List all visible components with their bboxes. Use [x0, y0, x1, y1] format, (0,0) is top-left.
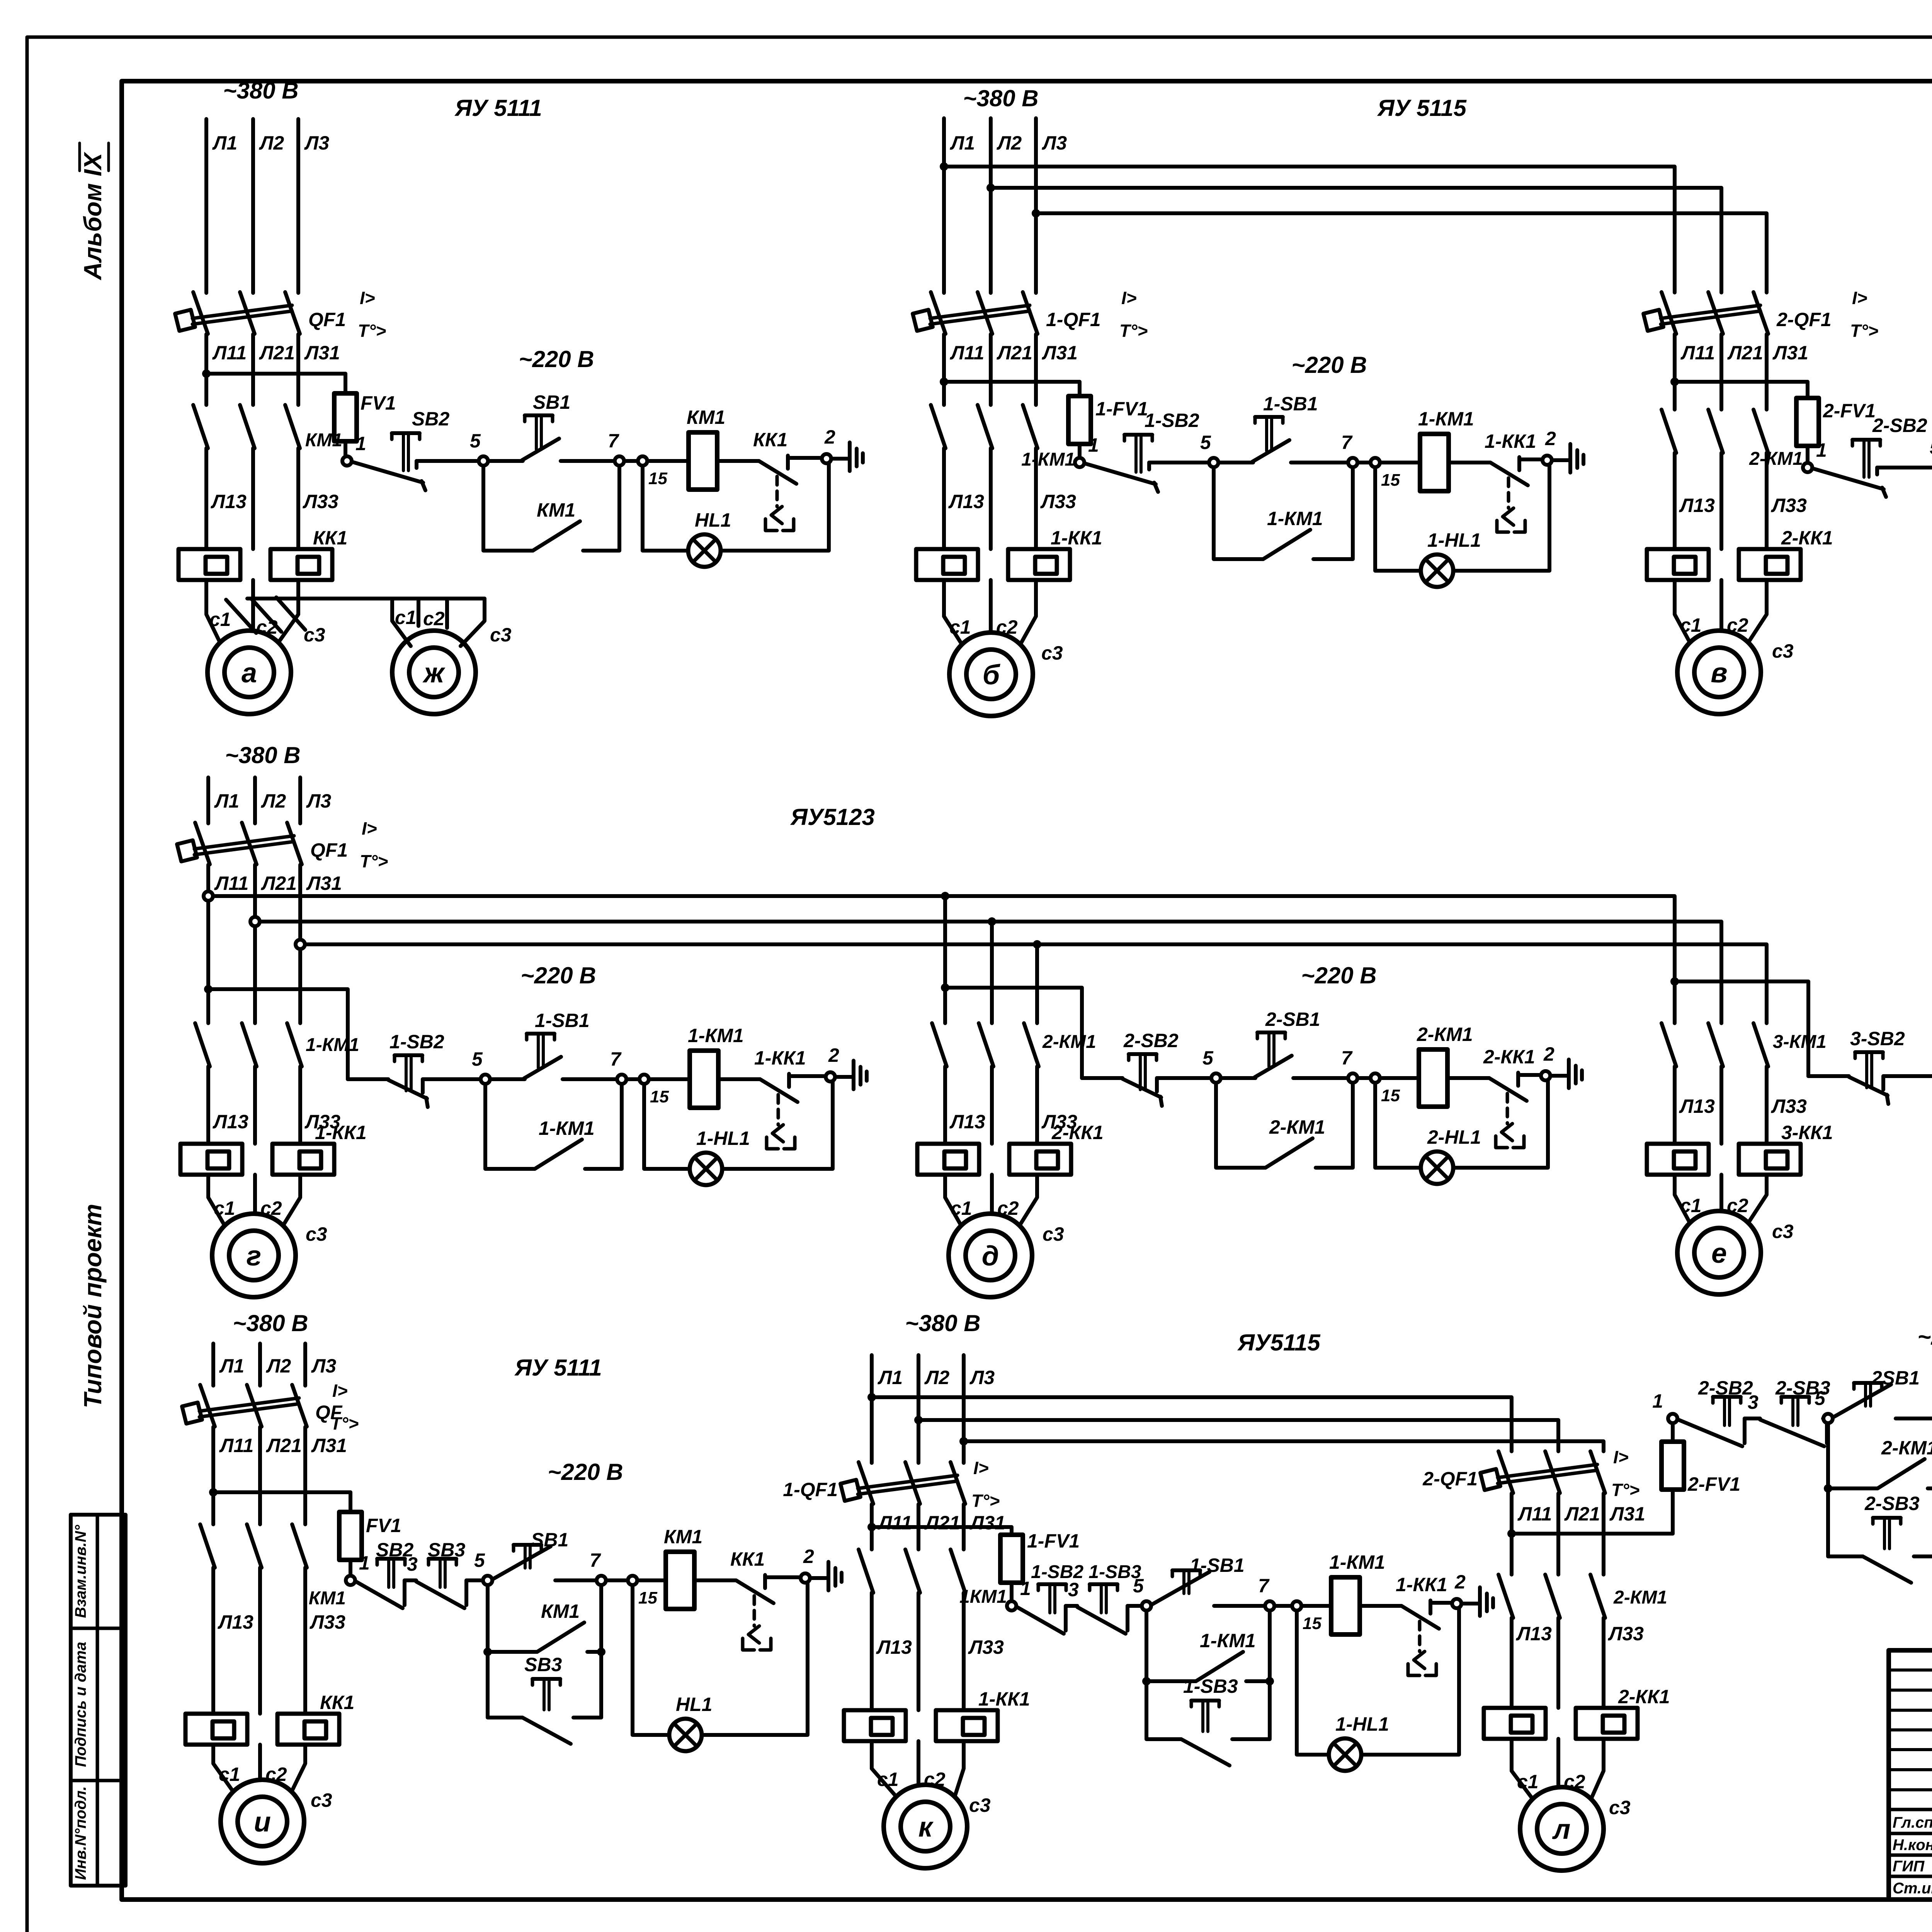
thermal relay heater 2-КК1 phase 3 (unit д) [1009, 1144, 1071, 1175]
svg-text:и: и [254, 1807, 271, 1838]
svg-text:c3: c3 [304, 624, 325, 646]
svg-text:SB1: SB1 [533, 391, 570, 413]
contactor main contacts 2-КМ1 (unit д) [932, 1023, 947, 1066]
lamp branch wire (unit и) [633, 1585, 669, 1735]
svg-text:c3: c3 [1609, 1797, 1631, 1818]
svg-text:2-КМ1: 2-КМ1 [1881, 1437, 1932, 1459]
svg-text:Л21: Л21 [924, 1512, 960, 1534]
control tap junction (unit д) [941, 983, 949, 992]
svg-text:2-КК1: 2-КК1 [1051, 1122, 1104, 1143]
svg-text:в: в [1711, 658, 1728, 689]
title block signature grid [1889, 1808, 1932, 1811]
thermal relay heater КК1 phase 3 (unit a) [270, 549, 332, 580]
svg-text:1: 1 [359, 1552, 370, 1574]
wire motor leads c1 c2 c3 (unit б) [944, 580, 962, 644]
svg-text:1-КМ1: 1-КМ1 [1267, 508, 1323, 529]
svg-text:I>: I> [1852, 288, 1867, 308]
svg-text:1: 1 [1088, 434, 1099, 456]
svg-text:~220 В: ~220 В [1291, 352, 1367, 378]
svg-text:SB3: SB3 [428, 1539, 465, 1561]
signal lamp 1-HL1 (unit г) [690, 1153, 722, 1185]
node 1 (unit в) [1803, 463, 1812, 472]
contactor main contacts 3-КМ1 (unit е) [1662, 1023, 1676, 1066]
wire to node 2 (unit к) [1430, 1601, 1452, 1605]
svg-text:3: 3 [1068, 1579, 1079, 1600]
motor в (unit в) [1677, 631, 1761, 714]
node 7 (unit д) [1348, 1073, 1357, 1083]
node 2 (unit д) [1541, 1071, 1550, 1080]
stop button 2-SB2 NC contact (unit л) [1678, 1420, 1742, 1446]
svg-text:КМ1: КМ1 [309, 1588, 346, 1609]
svg-text:I>: I> [362, 818, 377, 838]
wire phase L1 feeder (unit к) [870, 1355, 874, 1463]
lamp branch wire (unit к) [1297, 1611, 1329, 1755]
contactor main contacts 2-КМ1 (unit л) [1498, 1575, 1513, 1618]
thermal relay heater 2-КК1 phase 1 (unit в) [1647, 549, 1709, 580]
node 5 (unit л) [1823, 1414, 1833, 1423]
thermal relay heater КК1 phase 1 (unit и) [185, 1714, 247, 1745]
node 5 (unit и) [483, 1576, 492, 1585]
svg-text:T°>: T°> [1850, 321, 1878, 341]
wire contactor to heaters (unit д) [943, 1066, 947, 1144]
svg-text:Л33: Л33 [968, 1636, 1004, 1658]
thermal relay heater 3-КК1 phase 1 (unit е) [1647, 1144, 1709, 1175]
svg-text:Л3: Л3 [311, 1355, 336, 1377]
svg-text:КМ1: КМ1 [537, 499, 575, 521]
wire motor leads c1 c2 c3 (unit е) [1675, 1175, 1690, 1223]
svg-text:Типовой проект: Типовой проект [79, 1204, 107, 1408]
svg-text:г: г [247, 1241, 261, 1272]
svg-text:Л1: Л1 [214, 790, 239, 812]
svg-text:Л13: Л13 [1679, 495, 1715, 516]
svg-text:Л13: Л13 [949, 1111, 985, 1133]
svg-text:1-КК1: 1-КК1 [1396, 1574, 1447, 1595]
svg-text:Л3: Л3 [304, 132, 329, 154]
wire to node 2 (unit б) [1519, 457, 1543, 461]
wire contactor to heaters (unit б) [942, 448, 946, 549]
wire node 2 to ground (unit и) [810, 1576, 828, 1580]
left stamp column boxes [71, 1515, 126, 1886]
motor и (unit и) [221, 1780, 304, 1863]
svg-text:7: 7 [1341, 1047, 1353, 1069]
pushbutton actuator (unit л) [1873, 1516, 1901, 1520]
node 15 (unit д) [1371, 1073, 1380, 1083]
chassis ground (unit к) [1478, 1587, 1482, 1616]
svg-text:Л21: Л21 [1727, 342, 1763, 364]
branch nodes on auxiliary loop (unit и) [483, 1648, 492, 1656]
svg-text:~380 В: ~380 В [905, 1310, 980, 1336]
svg-text:2-SB1: 2-SB1 [1265, 1009, 1320, 1030]
svg-text:2: 2 [1543, 1043, 1554, 1065]
svg-text:T°>: T°> [358, 321, 386, 341]
wire node 2 to ground (unit д) [1550, 1074, 1568, 1078]
thermal relay heater 2-КК1 phase 3 (unit в) [1739, 549, 1801, 580]
svg-text:Л1: Л1 [950, 132, 975, 154]
svg-text:Взам.инв.N°: Взам.инв.N° [72, 1525, 89, 1618]
wire SB1 to node 7 (unit л) [1896, 1417, 1932, 1420]
svg-text:Л11: Л11 [950, 342, 984, 364]
svg-text:Л13: Л13 [876, 1636, 912, 1658]
pushbutton actuator (unit в) [1852, 438, 1880, 442]
thermal relay NC contact 2-КК1 (unit д) [1489, 1078, 1527, 1101]
thermal release symbol (unit д) [1506, 1094, 1509, 1124]
node 1 (unit л) [1668, 1414, 1677, 1423]
terminal box (motor ж) [392, 599, 411, 646]
wire breaker to contactor (unit в) [1673, 334, 1677, 410]
motor г (unit г) [212, 1214, 296, 1297]
branch nodes on auxiliary loop (unit л) [1824, 1484, 1832, 1493]
parallel start button SB3 branch (unit и) [488, 1652, 522, 1718]
svg-text:1-КМ1: 1-КМ1 [1329, 1551, 1385, 1573]
thermal relay NC contact 1-КК1 (unit к) [1401, 1606, 1439, 1629]
svg-text:КК1: КК1 [753, 429, 787, 451]
fuse FV1 (unit и) [349, 1492, 352, 1512]
node 15 (unit a) [638, 456, 647, 466]
fuse 2-FV1 (unit л) [1662, 1442, 1684, 1490]
svg-text:5: 5 [1133, 1575, 1144, 1597]
svg-text:15: 15 [1381, 471, 1400, 490]
svg-text:c3: c3 [1041, 642, 1063, 664]
auxiliary contact КМ1 branch (unit a) [483, 466, 533, 551]
svg-text:КМ1: КМ1 [541, 1600, 580, 1622]
lamp branch wire (unit г) [644, 1084, 690, 1169]
svg-text:I>: I> [332, 1381, 348, 1401]
svg-text:~380 В: ~380 В [225, 742, 300, 768]
svg-text:c3: c3 [306, 1223, 327, 1245]
svg-text:2: 2 [824, 426, 835, 448]
chassis ground (unit г) [852, 1061, 855, 1089]
wire to node 2 (unit г) [789, 1074, 826, 1078]
svg-text:2-КК1: 2-КК1 [1781, 527, 1833, 549]
svg-text:1: 1 [1816, 439, 1827, 461]
stop button SB2 NC contact (unit и) [356, 1582, 403, 1608]
svg-text:2-FV1: 2-FV1 [1687, 1473, 1740, 1495]
node 1 (unit к) [1007, 1601, 1016, 1611]
svg-text:ЯУ5123: ЯУ5123 [790, 804, 875, 830]
wire SB2 to node 5 (unit a) [415, 461, 418, 468]
svg-text:c3: c3 [490, 624, 512, 646]
wire contactor to heaters (unit в) [1673, 453, 1677, 549]
lamp branch wire (unit б) [1375, 468, 1421, 571]
thermal relay heater 2-КК1 phase 3 (unit л) [1576, 1708, 1638, 1739]
wire phase L2 feeder (unit б) [989, 118, 993, 293]
thermal relay heater КК1 phase 1 (unit a) [179, 549, 240, 580]
svg-text:Л2: Л2 [924, 1367, 949, 1388]
svg-text:Л31: Л31 [306, 872, 342, 894]
svg-text:ЯУ5115: ЯУ5115 [1237, 1330, 1321, 1355]
svg-text:Л11: Л11 [219, 1435, 253, 1456]
svg-text:1-SB1: 1-SB1 [1190, 1554, 1245, 1576]
svg-text:2: 2 [803, 1546, 814, 1567]
svg-text:2: 2 [1545, 428, 1556, 449]
wire to node 2 (unit a) [788, 456, 822, 460]
pushbutton actuator (unit л) [1713, 1395, 1741, 1399]
svg-text:2-SB3: 2-SB3 [1864, 1493, 1920, 1514]
fuse 1-FV1 (unit б) [1078, 382, 1082, 396]
thermal release symbol (unit к) [1418, 1621, 1422, 1651]
svg-text:КК1: КК1 [730, 1548, 765, 1570]
svg-text:1-КМ1: 1-КМ1 [539, 1117, 595, 1139]
signal lamp 2-HL1 (unit д) [1421, 1151, 1453, 1184]
contactor coil КМ1 (unit и) [666, 1552, 694, 1609]
motor л (unit л) [1520, 1787, 1604, 1871]
svg-text:3: 3 [407, 1553, 418, 1575]
pushbutton actuator (unit к) [1172, 1568, 1200, 1572]
svg-text:1: 1 [355, 433, 366, 454]
svg-text:Л1: Л1 [219, 1355, 244, 1377]
bus wire phase 1 row 2 [213, 896, 1675, 1022]
control tap junction (unit в) [1670, 378, 1679, 386]
svg-text:1-КМ1: 1-КМ1 [1200, 1630, 1256, 1651]
wire node 2 to ground (unit к) [1461, 1602, 1479, 1605]
svg-text:1: 1 [1020, 1578, 1031, 1599]
wire SB1 to node 7 (unit a) [561, 459, 614, 463]
pushbutton actuator (unit б) [1124, 433, 1152, 437]
svg-text:Инв.N°подл.: Инв.N°подл. [72, 1786, 89, 1880]
start button 2SB1 NO contact (unit л) [1833, 1384, 1891, 1417]
svg-text:КМ1: КМ1 [305, 430, 342, 451]
control tap junction (unit a) [202, 369, 211, 378]
node 5 (unit a) [479, 456, 488, 466]
svg-text:15: 15 [1303, 1614, 1321, 1633]
control tap junction (unit л) [1507, 1529, 1516, 1538]
svg-text:I>: I> [973, 1458, 989, 1478]
wire phase L1 feeder (unit г) [206, 777, 210, 823]
node 7 (unit б) [1348, 458, 1357, 467]
svg-text:Н.контр.: Н.контр. [1893, 1837, 1932, 1854]
start button 2-SB1 NO contact (unit д) [1221, 1076, 1255, 1080]
svg-text:б: б [983, 660, 1001, 690]
wire node 3 (unit к) [1064, 1606, 1068, 1631]
signal lamp HL1 (unit и) [669, 1719, 702, 1751]
circuit breaker QF1 (unit г) [195, 823, 210, 864]
svg-text:T°>: T°> [1119, 321, 1148, 341]
svg-text:Л13: Л13 [213, 1111, 248, 1133]
svg-text:2-HL1: 2-HL1 [1427, 1126, 1481, 1148]
thermal release symbol (unit г) [777, 1095, 780, 1125]
contactor main contacts 1-КМ1 (unit б) [931, 405, 946, 448]
svg-text:ГИП: ГИП [1893, 1858, 1925, 1875]
circuit breaker 2-QF1 (unit л) [1498, 1451, 1513, 1493]
circuit breaker 1-QF1 (unit к) [859, 1462, 873, 1504]
wire SB2 to node 5 (unit б) [1147, 463, 1151, 469]
svg-text:c2: c2 [423, 608, 445, 629]
signal lamp 1-HL1 (unit к) [1329, 1738, 1361, 1771]
branch nodes on auxiliary loop (unit к) [1142, 1677, 1151, 1685]
svg-text:3-КМ1: 3-КМ1 [1773, 1032, 1827, 1052]
svg-text:Л21: Л21 [259, 342, 295, 364]
svg-text:2-КК1: 2-КК1 [1483, 1046, 1535, 1068]
wire breaker to contactor (unit л) [1510, 1493, 1514, 1575]
pushbutton actuator (unit л) [1781, 1395, 1809, 1399]
svg-text:7: 7 [608, 430, 619, 452]
svg-text:c1: c1 [949, 616, 971, 638]
svg-text:c3: c3 [311, 1789, 332, 1811]
wire breaker to tap (unit и) [211, 1427, 215, 1524]
svg-text:2-КМ1: 2-КМ1 [1042, 1032, 1096, 1052]
fuse 1-FV1 (unit к) [1010, 1527, 1014, 1535]
wire breaker to contactor (unit к) [870, 1504, 874, 1549]
contactor main contacts 1КМ1 (unit к) [859, 1549, 873, 1593]
contactor coil 1-КМ1 (unit к) [1331, 1577, 1360, 1634]
svg-text:Л13: Л13 [1516, 1623, 1552, 1645]
node 5 (unit к) [1142, 1601, 1151, 1611]
svg-text:c3: c3 [1772, 1221, 1794, 1242]
pushbutton actuator (unit a) [392, 431, 420, 435]
bus tap junctions (unit б) [940, 162, 948, 171]
wire phase L2 feeder (unit к) [917, 1355, 920, 1463]
svg-text:Л33: Л33 [303, 491, 338, 512]
svg-text:2: 2 [828, 1044, 839, 1066]
title block frame [1889, 1650, 1932, 1900]
wire phase L1 feeder (unit и) [211, 1344, 215, 1386]
contactor main contacts 1-КМ1 (unit г) [195, 1023, 210, 1066]
stop button 1-SB2 NC contact (unit к) [1017, 1607, 1064, 1634]
wire breaker down through taps (unit г) [206, 865, 210, 1023]
wire phase L3 feeder (unit г) [298, 777, 302, 823]
svg-text:c1: c1 [1517, 1771, 1539, 1793]
pushbutton actuator (unit к) [1191, 1699, 1219, 1702]
wire after SB3 (unit и) [464, 1580, 468, 1605]
stop button 1-SB3 NC contact (unit к) [1077, 1607, 1126, 1634]
svg-text:1-КК1: 1-КК1 [754, 1047, 806, 1069]
svg-text:2-SB2: 2-SB2 [1123, 1030, 1179, 1051]
svg-text:д: д [982, 1241, 999, 1272]
wire contactor to heaters (unit к) [870, 1593, 874, 1710]
svg-text:c1: c1 [219, 1764, 240, 1785]
thermal relay heater 1-КК1 phase 1 (unit г) [180, 1144, 242, 1175]
wire contactor to heaters (unit е) [1673, 1066, 1677, 1144]
svg-text:КК1: КК1 [313, 527, 347, 549]
svg-text:ЯУ 5111: ЯУ 5111 [514, 1355, 602, 1381]
svg-text:2: 2 [1454, 1571, 1466, 1593]
lamp branch wire (unit a) [643, 466, 688, 551]
svg-text:~380 В: ~380 В [963, 85, 1038, 111]
svg-text:Л31: Л31 [1042, 342, 1078, 364]
thermal relay NC contact КК1 (unit и) [736, 1580, 774, 1603]
node 2 (unit и) [801, 1573, 810, 1583]
svg-text:c1: c1 [214, 1197, 235, 1219]
svg-text:15: 15 [1381, 1086, 1400, 1105]
pushbutton actuator (unit и) [377, 1557, 405, 1561]
svg-text:а: а [241, 658, 257, 689]
svg-text:1-HL1: 1-HL1 [1427, 529, 1481, 551]
bus wire phase 2 to unit в [991, 188, 1721, 293]
control tap junction (unit к) [867, 1523, 876, 1531]
node 7 (unit a) [615, 456, 624, 466]
svg-text:Л2: Л2 [259, 132, 284, 154]
thermal release symbol (unit a) [776, 476, 779, 507]
svg-text:КК1: КК1 [320, 1692, 354, 1713]
start button 1-SB1 NO contact (unit б) [1219, 461, 1253, 464]
signal lamp HL1 (unit a) [688, 534, 721, 567]
bus wire phase 3 row 2 [305, 944, 1767, 1022]
svg-text:c1: c1 [1680, 1195, 1702, 1216]
svg-text:1-КМ1: 1-КМ1 [1418, 408, 1474, 430]
contactor coil 2-КМ1 (unit д) [1419, 1049, 1447, 1107]
bus wire phase 1 to unit л [872, 1397, 1512, 1451]
wire to node 2 (unit д) [1518, 1073, 1541, 1077]
svg-text:c1: c1 [1680, 614, 1702, 636]
wire phase L1 feeder (unit a) [204, 119, 208, 293]
svg-text:7: 7 [590, 1549, 601, 1571]
contactor main contacts КМ1 (unit и) [200, 1524, 215, 1568]
node 7 (unit и) [597, 1576, 606, 1585]
fuse FV1 (unit a) [344, 374, 347, 393]
svg-text:Л21: Л21 [1564, 1503, 1600, 1525]
node 2 (unit г) [826, 1072, 835, 1082]
svg-text:е: е [1711, 1238, 1727, 1269]
pushbutton actuator (unit б) [1255, 415, 1283, 419]
svg-text:Л11: Л11 [212, 342, 247, 364]
svg-text:Л3: Л3 [1042, 132, 1067, 154]
svg-text:1-QF1: 1-QF1 [1046, 309, 1101, 330]
svg-text:к: к [918, 1812, 934, 1843]
svg-text:Л33: Л33 [1040, 491, 1076, 512]
svg-text:Л31: Л31 [969, 1512, 1005, 1534]
svg-text:QF1: QF1 [310, 839, 348, 861]
wire motor leads c1 c2 c3 (unit в) [1675, 580, 1690, 642]
stop button 2-SB3 NC contact (unit л) [1760, 1420, 1824, 1446]
svg-text:5: 5 [470, 430, 481, 452]
svg-text:1-КК1: 1-КК1 [978, 1688, 1030, 1710]
wire node 3 (unit л) [1743, 1418, 1747, 1443]
node 2 (unit a) [822, 454, 831, 463]
svg-text:1-HL1: 1-HL1 [696, 1128, 750, 1149]
svg-text:2-КК1: 2-КК1 [1618, 1686, 1670, 1708]
thermal relay NC contact КК1 (unit a) [759, 461, 796, 484]
cable hatching (unit a) [226, 600, 256, 633]
node 15 (unit к) [1292, 1601, 1301, 1611]
pushbutton actuator (unit к) [1090, 1582, 1117, 1586]
svg-text:1-SB2: 1-SB2 [1145, 410, 1199, 431]
wire breaker to contactor (unit б) [942, 334, 946, 405]
wire to node 2 (unit и) [765, 1575, 801, 1579]
svg-text:Л13: Л13 [218, 1611, 253, 1633]
svg-text:Л31: Л31 [311, 1435, 347, 1456]
start button SB1 NO contact (unit a) [488, 459, 523, 463]
circuit breaker QF1 (unit a) [193, 292, 208, 334]
wire SB2 to node 5 (unit г) [421, 1079, 425, 1093]
wire node 3 (unit и) [403, 1580, 406, 1605]
svg-text:7: 7 [1258, 1575, 1270, 1597]
node 7 (unit г) [617, 1075, 626, 1084]
svg-text:Л11: Л11 [1680, 342, 1715, 364]
wire after 2-SB3 (unit л) [1825, 1418, 1829, 1443]
wire node 2 to ground (unit г) [835, 1075, 853, 1079]
svg-text:л: л [1552, 1814, 1571, 1845]
contactor coil 1-КМ1 (unit б) [1420, 434, 1449, 491]
wire SB1 to node 7 (unit г) [563, 1077, 617, 1081]
circuit breaker QF (unit и) [200, 1385, 215, 1427]
svg-text:1-КМ1: 1-КМ1 [306, 1035, 359, 1055]
wire phase L3 feeder (unit к) [962, 1355, 966, 1463]
svg-text:c3: c3 [969, 1794, 991, 1816]
svg-text:ж: ж [422, 658, 446, 689]
thermal release symbol (unit и) [753, 1596, 756, 1626]
svg-text:SB1: SB1 [531, 1529, 568, 1551]
pushbutton actuator (unit и) [532, 1677, 560, 1681]
parallel start button 2-SB3 branch (unit л) [1828, 1488, 1863, 1556]
svg-text:2-КМ1: 2-КМ1 [1417, 1024, 1473, 1045]
contactor coil КМ1 (unit a) [689, 432, 717, 490]
svg-text:Ст.инж.: Ст.инж. [1893, 1880, 1932, 1897]
svg-text:2-QF1: 2-QF1 [1422, 1468, 1478, 1490]
svg-text:2-КМ1: 2-КМ1 [1269, 1116, 1325, 1138]
wire node 2 to ground (unit a) [831, 457, 849, 461]
svg-text:15: 15 [650, 1087, 669, 1106]
stop button SB3 NC contact (unit и) [416, 1582, 464, 1608]
